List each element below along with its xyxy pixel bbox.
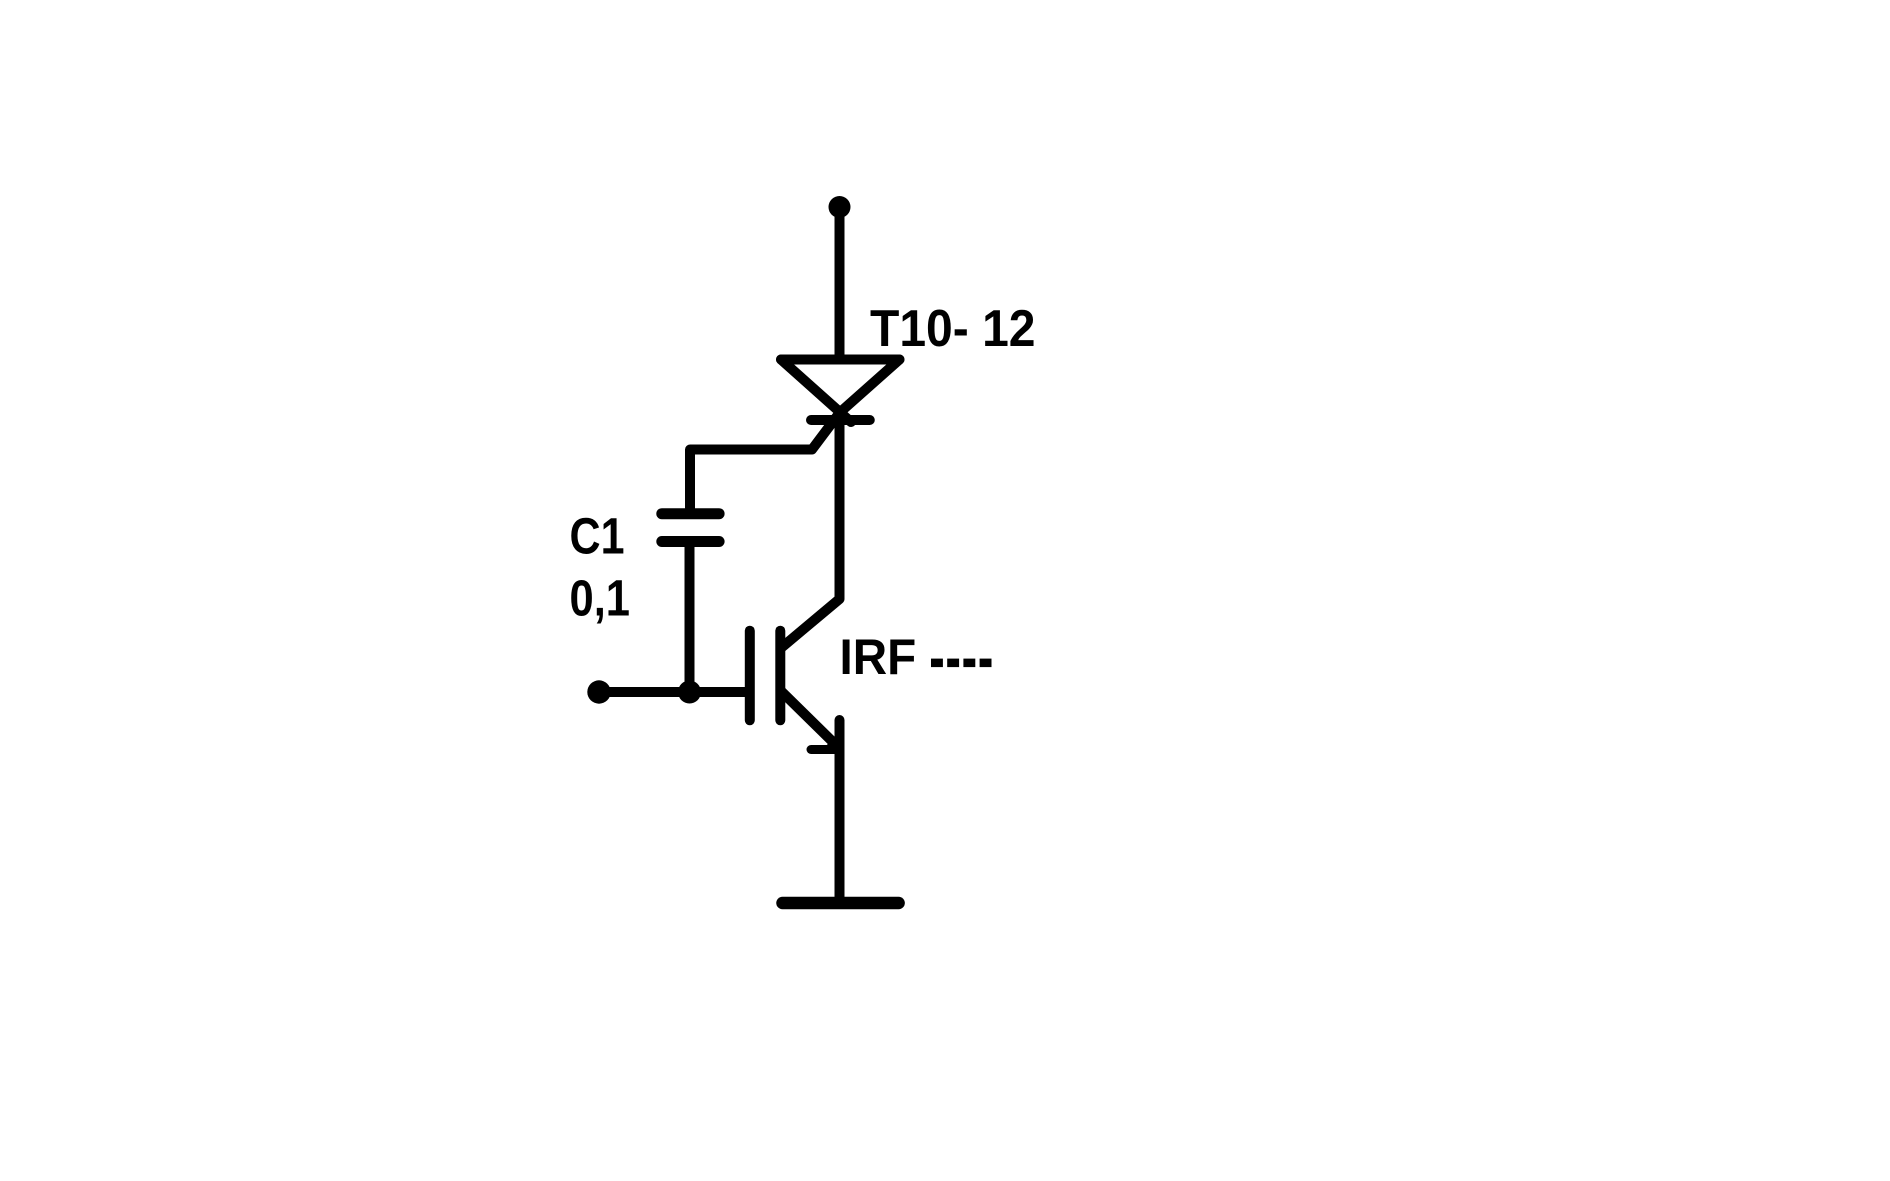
MOSFET source arrowhead fill bbox=[822, 729, 841, 754]
ground symbol bbox=[783, 897, 899, 910]
svg-text:0,1: 0,1 bbox=[570, 570, 631, 627]
source diagonal bbox=[781, 691, 838, 747]
gate bar bbox=[745, 631, 755, 721]
capacitor C1 bottom plate bbox=[662, 536, 719, 547]
wire: anode lead from top terminal down to thyristor bbox=[835, 207, 845, 360]
node: junction dot at capacitor / gate wire bbox=[678, 681, 701, 704]
svg-text:C1: C1 bbox=[570, 508, 625, 565]
MOSFET Q1 (IRF) bbox=[750, 631, 838, 750]
node: top supply terminal dot bbox=[829, 196, 851, 218]
capacitor C1 top plate bbox=[662, 508, 719, 519]
thyristor T10-12 bbox=[781, 360, 900, 423]
wire: MOSFET source down to ground bbox=[835, 720, 845, 900]
svg-text:IRF: IRF bbox=[840, 629, 917, 685]
channel bar bbox=[775, 631, 785, 721]
wire: thyristor cathode down to MOSFET drain bbox=[781, 412, 840, 648]
wire: input terminal to MOSFET gate bbox=[599, 687, 745, 697]
wire: thyristor gate lead to capacitor top (diagonal + horizontal + drop) bbox=[690, 413, 840, 510]
svg-text:T10- 12: T10- 12 bbox=[870, 299, 1036, 357]
source arrow barb bbox=[811, 745, 838, 754]
node: input terminal dot bbox=[587, 680, 610, 703]
wire: capacitor bottom plate down to gate node bbox=[685, 547, 695, 692]
